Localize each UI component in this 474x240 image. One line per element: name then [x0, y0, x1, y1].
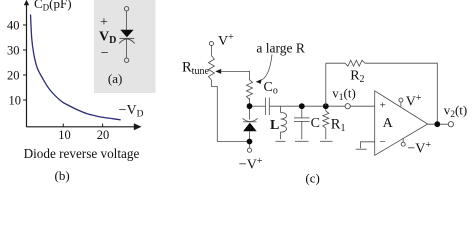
ground L [276, 140, 286, 142]
varactor cathode bar [120, 37, 135, 39]
y tick 40 [23, 24, 27, 26]
wire varactor top lead [249, 106, 251, 119]
wire feedback top left [326, 62, 345, 64]
svg-text:40: 40 [7, 19, 20, 33]
svg-text:L: L [270, 118, 279, 133]
varactor top terminal [124, 7, 128, 11]
x-axis arrowhead [134, 123, 142, 130]
svg-text:Rtune: Rtune [182, 59, 209, 77]
op-amp A triangle [375, 91, 428, 156]
svg-text:−V+: −V+ [239, 156, 263, 173]
svg-text:(c): (c) [305, 170, 319, 185]
resistor R1 [323, 111, 329, 128]
x tick 10 [62, 124, 64, 127]
terminal op-amp -V+ [401, 142, 405, 146]
resistor Rtune [208, 56, 214, 80]
terminal v1(t) [345, 104, 350, 109]
svg-text:−V+: −V+ [407, 140, 431, 157]
wire op-amp -V+ stub [402, 138, 404, 142]
svg-text:A: A [383, 116, 394, 131]
node varactor top [247, 103, 253, 109]
wire node to Co [250, 105, 266, 107]
C-V curve [31, 15, 121, 120]
wire large R to node [249, 98, 251, 106]
wire inverting input [361, 142, 375, 149]
svg-text:V+: V+ [406, 93, 422, 110]
wire output [428, 123, 449, 125]
y tick 20 [23, 74, 27, 76]
wire feedback left vertical [325, 63, 327, 106]
wire Co to tank rail [269, 105, 345, 107]
wire varactor bottom lead [249, 131, 251, 148]
wire cathode lead [126, 38, 128, 58]
y-axis arrowhead [24, 0, 29, 5]
wire feedback top right [365, 63, 438, 124]
varactor D1 curved plate [243, 118, 258, 121]
varactor D triangle [120, 30, 133, 37]
wire Rtune bottom L-route [211, 80, 246, 142]
terminal op-amp V+ [399, 98, 403, 102]
varactor curved plate [119, 39, 135, 43]
wire anode lead [126, 11, 128, 30]
wire op-amp V+ stub [400, 102, 402, 106]
svg-text:Diode reverse voltage: Diode reverse voltage [24, 146, 140, 161]
svg-text:CD(pF): CD(pF) [34, 0, 72, 13]
terminal -V+ [247, 148, 251, 152]
varactor D1 cathode bar [243, 121, 257, 123]
arrow a-large-R pointer [260, 55, 273, 82]
node v1 [323, 103, 329, 109]
terminal V+ top [209, 41, 213, 45]
svg-text:−VD: −VD [119, 103, 144, 119]
svg-text:(b): (b) [55, 168, 70, 183]
wire R1 bottom lead [325, 128, 327, 139]
capacitor C plates [294, 117, 310, 119]
node varactor bottom [247, 139, 253, 145]
resistor R2 [345, 60, 365, 66]
wire C bottom lead [301, 121, 303, 139]
ground C [295, 140, 309, 142]
svg-text:+: + [380, 100, 386, 112]
y tick 30 [23, 49, 27, 51]
capacitor Co plates [265, 98, 267, 116]
node C top [299, 103, 305, 109]
resistor large R [247, 80, 253, 100]
y tick 10 [23, 99, 27, 101]
svg-text:30: 30 [7, 44, 20, 58]
svg-text:−: − [101, 46, 109, 61]
svg-text:20: 20 [97, 128, 110, 142]
y-axis [26, 3, 28, 127]
svg-text:20: 20 [7, 69, 20, 83]
svg-text:a large R: a large R [256, 40, 304, 55]
ground R1 [320, 140, 333, 142]
svg-text:−: − [380, 136, 386, 148]
svg-text:+: + [100, 15, 108, 30]
wire V+ to Rtune [210, 46, 212, 56]
x-axis [27, 126, 138, 128]
svg-text:v2(t): v2(t) [444, 103, 468, 121]
varactor D1 triangle [243, 123, 257, 132]
wire v1 to op-amp [350, 105, 375, 107]
wire R1 top lead [325, 106, 327, 111]
wire C top lead [301, 106, 303, 118]
svg-text:v1(t): v1(t) [332, 85, 356, 103]
svg-text:(a): (a) [108, 71, 122, 86]
svg-text:R1: R1 [331, 117, 346, 135]
varactor bottom terminal [124, 58, 128, 62]
svg-text:V+: V+ [218, 32, 234, 49]
svg-text:10: 10 [9, 94, 22, 108]
svg-text:C: C [311, 116, 320, 131]
ground op-amp [356, 148, 367, 150]
svg-text:10: 10 [58, 128, 70, 142]
svg-text:R2: R2 [350, 69, 364, 86]
inset background box [94, 0, 156, 93]
x tick 20 [102, 124, 104, 127]
node output [434, 121, 440, 127]
wiper arrowhead [215, 69, 221, 74]
terminal v2(t) [448, 122, 453, 127]
svg-text:Co: Co [264, 80, 278, 97]
inductor L [281, 106, 287, 139]
wire wiper to large R [221, 71, 250, 80]
